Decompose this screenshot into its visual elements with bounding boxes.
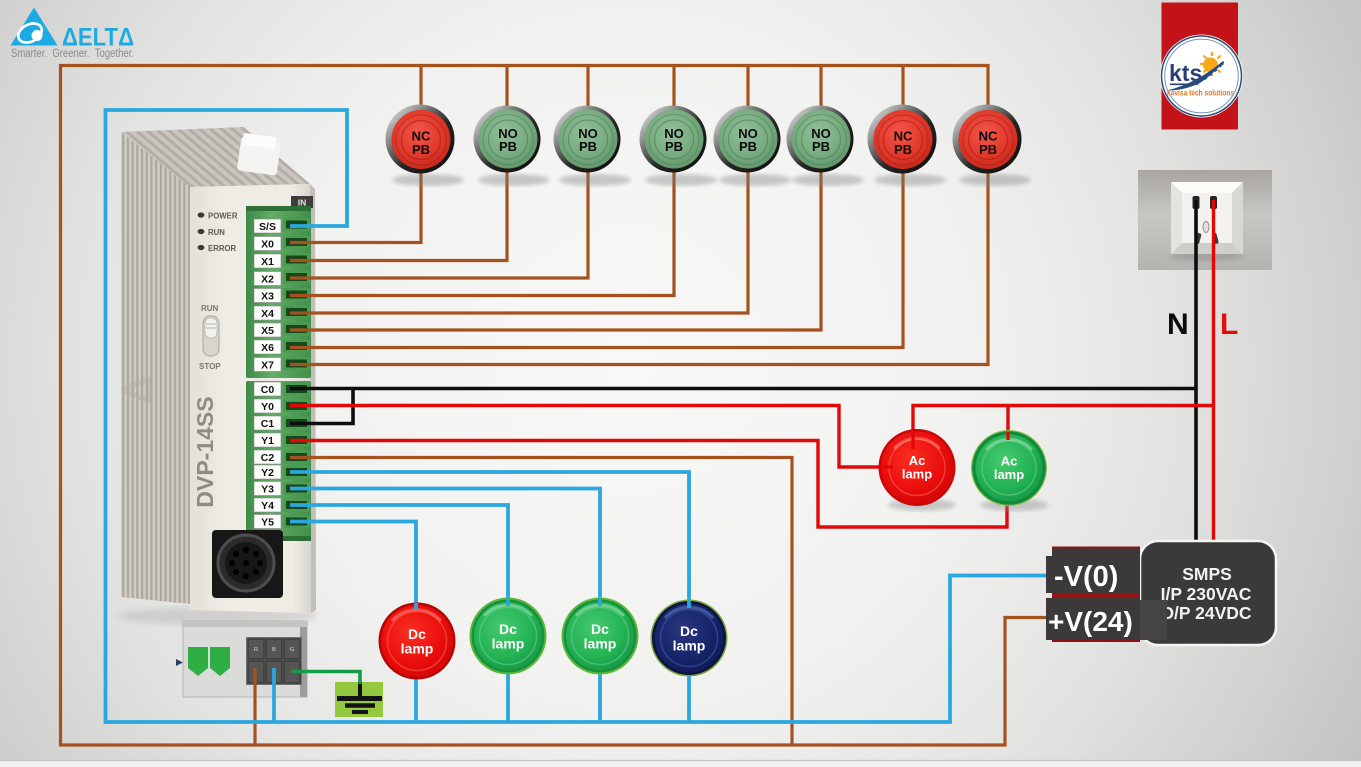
SMPS PS1 [1140, 541, 1276, 645]
PLC shadow [118, 607, 318, 625]
svg-text:X4: X4 [261, 308, 274, 320]
wire red L from socket to SMPS [1212, 200, 1215, 547]
LED RUN [198, 229, 205, 234]
push button PB1 NC [386, 105, 465, 187]
LED ERROR [198, 245, 205, 250]
push button PB8 NC [953, 105, 1032, 187]
svg-text:R: R [254, 647, 258, 653]
svg-text:lamp: lamp [401, 641, 434, 657]
push button PB2 NO [474, 106, 551, 187]
AC lamp green H2 [971, 430, 1048, 511]
wire red Y1 to green AC lamp bottom [290, 441, 1007, 528]
DC lamp green L2 [470, 598, 547, 675]
wire stub into red AC lamp left [879, 465, 893, 468]
wire brown PLC power to bottom bus [253, 668, 256, 745]
svg-text:SMPS: SMPS [1182, 564, 1232, 584]
svg-text:C2: C2 [261, 452, 275, 464]
wire black N from socket to SMPS [1194, 200, 1198, 547]
wire brown PB top drops [419, 66, 422, 108]
wire blue Dc lamp 2 return [506, 671, 510, 722]
svg-text:Y0: Y0 [261, 401, 274, 413]
wire PB1 to X0 [290, 170, 421, 243]
svg-text:STOP: STOP [199, 362, 221, 371]
wire PB2 to X1 [290, 170, 507, 261]
svg-text:PB: PB [499, 139, 517, 154]
wire red Y0 to red AC lamp [290, 406, 882, 468]
wire PB3 to X2 [290, 170, 588, 278]
svg-text:C1: C1 [261, 418, 275, 430]
road swoosh [1167, 61, 1224, 91]
svg-text:PB: PB [979, 142, 997, 157]
wire blue Dc lamp 1 return [414, 675, 418, 722]
PLC front face [190, 184, 311, 613]
svg-text:PB: PB [665, 139, 683, 154]
output terminal block [246, 381, 311, 541]
wire blue Y4 to Dc lamp 2 [290, 505, 508, 602]
svg-text:S/S: S/S [259, 221, 276, 233]
svg-text:Y5: Y5 [261, 517, 274, 529]
round programming connector [212, 530, 283, 598]
svg-text:PB: PB [812, 139, 830, 154]
svg-text:RUN: RUN [201, 304, 219, 313]
SMPS terminal label +V(24) [1046, 598, 1167, 642]
wire PB8 to X7 [290, 170, 988, 365]
ground symbol [337, 682, 382, 712]
SMPS terminal label -V(0) [1046, 547, 1140, 599]
svg-text:Smarter. Greener. Together.: Smarter. Greener. Together. [11, 48, 134, 60]
svg-text:ERROR: ERROR [208, 244, 237, 253]
wire brown supply bus: top bus, left drop, bottom bus, riser to +V(24) [61, 66, 1050, 746]
svg-text:kavisa tech solutions: kavisa tech solutions [1167, 89, 1234, 98]
wire blue Dc lamp 4 return [687, 673, 691, 722]
AC wall socket [1138, 170, 1272, 270]
svg-text:Y2: Y2 [261, 467, 274, 479]
wire red drop to green AC lamp [1006, 406, 1009, 434]
svg-text:L: L [1220, 308, 1238, 341]
svg-text:Δ: Δ [114, 375, 161, 405]
wire blue Y5 to Dc lamp 1 [290, 522, 416, 608]
wire brown C2 to bottom bus [290, 458, 792, 746]
svg-text:PB: PB [894, 142, 912, 157]
wire PB5 to X4 [290, 170, 748, 313]
ground pad [335, 682, 383, 717]
IN label [291, 196, 313, 208]
svg-text:B: B [272, 647, 276, 653]
svg-text:lamp: lamp [584, 636, 617, 652]
svg-text:X3: X3 [261, 291, 274, 303]
PLC top clip [237, 136, 281, 175]
svg-text:G: G [290, 647, 294, 653]
3-pin terminal R B G [246, 637, 302, 685]
svg-text:Y4: Y4 [261, 500, 274, 512]
sun icon [1200, 52, 1224, 76]
wire black C0 to N [290, 387, 1196, 391]
push button PB4 NO [640, 106, 718, 187]
svg-text:+V(24): +V(24) [1048, 606, 1133, 637]
wire stub into DC lamp tops [416, 599, 689, 611]
PLC U1 DVP-14SS [114, 127, 318, 625]
svg-text:X5: X5 [261, 325, 274, 337]
push button PB6 NO [787, 106, 865, 187]
wire stub into red AC lamp top [911, 431, 914, 449]
PLC power terminal block [176, 621, 307, 697]
svg-text:DVP-14SS: DVP-14SS [192, 396, 218, 507]
wire blue S/S loop and 0V return to -V(0) [106, 110, 1050, 722]
svg-text:POWER: POWER [208, 212, 238, 221]
wire PB7 to X6 [290, 170, 903, 348]
svg-text:PB: PB [739, 139, 757, 154]
wire blue Y3 to Dc lamp 3 [290, 489, 600, 603]
DC lamp blue L4 [651, 600, 728, 677]
svg-text:X1: X1 [261, 256, 274, 268]
socket slots [1193, 196, 1200, 209]
svg-text:lamp: lamp [492, 636, 525, 652]
svg-text:-V(0): -V(0) [1054, 561, 1118, 593]
svg-text:X7: X7 [261, 360, 274, 372]
LED POWER [198, 212, 205, 217]
svg-text:Y3: Y3 [261, 484, 274, 496]
input terminal labels S/S X0-X7 [254, 219, 281, 372]
wire green earth [291, 672, 360, 685]
svg-text:PB: PB [412, 142, 430, 157]
svg-text:O/P 24VDC: O/P 24VDC [1160, 603, 1251, 623]
DC lamp red L1 [379, 603, 456, 680]
PLC top face [121, 127, 310, 187]
svg-text:PB: PB [579, 139, 597, 154]
wire blue Y2 to Dc lamp 4 [290, 472, 689, 605]
KTS logo [1160, 3, 1243, 130]
PLC heatsink fins side [121, 132, 190, 604]
svg-text:lamp: lamp [902, 467, 932, 482]
svg-text:C0: C0 [261, 384, 275, 396]
wire blue Dc lamp 3 return [598, 671, 602, 722]
wire blue PLC power to bottom bus [272, 668, 276, 722]
wire red AC lamp bus to L [913, 406, 1214, 434]
output terminal clamps [283, 383, 310, 529]
Delta logo [11, 8, 135, 61]
wire stub into green AC lamp top [1006, 432, 1009, 440]
svg-text:RUN: RUN [208, 228, 225, 237]
AC lamp red H1 [879, 429, 957, 511]
wire PB4 to X3 [290, 170, 674, 296]
svg-text:N: N [1167, 308, 1189, 341]
svg-text:X2: X2 [261, 274, 274, 286]
svg-text:I/P 230VAC: I/P 230VAC [1161, 584, 1252, 604]
bottom band [0, 761, 1361, 767]
push button PB5 NO [714, 106, 792, 187]
input terminal clamps [283, 218, 310, 370]
wire black C0-C1 jumper [290, 389, 353, 424]
push button PB7 NC [868, 105, 947, 187]
push button PB3 NO [554, 106, 632, 187]
svg-text:lamp: lamp [994, 467, 1024, 482]
svg-text:lamp: lamp [673, 638, 706, 654]
wire PB6 to X5 [290, 170, 821, 330]
svg-text:Y1: Y1 [261, 435, 274, 447]
output terminal labels C0 Y0 C1 Y1 C2 Y2-Y5 [254, 382, 281, 529]
svg-text:X6: X6 [261, 342, 274, 354]
input terminal block [246, 206, 311, 378]
svg-text:X0: X0 [261, 239, 274, 251]
green power connectors [188, 647, 208, 676]
DC lamp green L3 [562, 598, 639, 675]
